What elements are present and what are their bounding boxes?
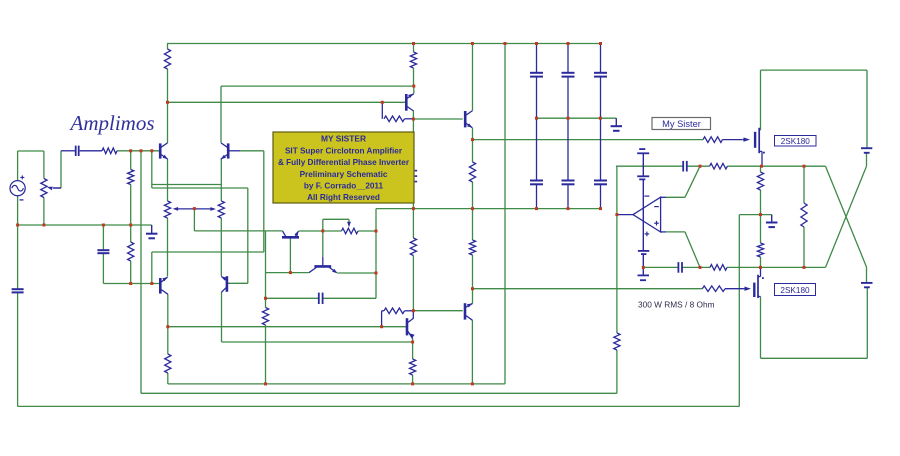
wire C3 to bottom rail — [17, 293, 19, 407]
wire bottom rail W3 y406 — [18, 405, 740, 407]
wire y342 — [222, 341, 413, 343]
wire Q2 emitter to pot — [220, 159, 222, 201]
wire ground rail y225 — [18, 224, 152, 226]
junction node at 804,166.2 — [803, 165, 806, 168]
svg-text:My Sister: My Sister — [662, 119, 701, 129]
wire cap bank column 3 mid — [600, 77, 602, 181]
wire input cap to resistor segment — [80, 150, 102, 152]
capacitor C3 bottom-left — [12, 288, 24, 290]
wire op-amp bias line — [642, 179, 644, 251]
wire y273 left segment — [266, 272, 309, 274]
potentiometer P1 input level — [41, 179, 47, 198]
junction node at 376,231 — [375, 230, 378, 233]
battery B3 circlotron top — [861, 147, 872, 149]
junction node at 265.5,298.3 — [264, 297, 267, 300]
junction node at 600.4,118.2 — [599, 117, 602, 120]
wire Q1 emitter to pot — [167, 159, 169, 201]
resistor R4b input divider lower — [128, 242, 134, 261]
junction node at 130.7,225 — [129, 224, 132, 227]
wire TrA center drop — [289, 239, 291, 273]
junction node at 322.8,230.9 — [321, 229, 324, 232]
svg-text:Preliminary Schematic: Preliminary Schematic — [300, 170, 388, 179]
resistor R15 x472 lower — [469, 240, 475, 255]
wire Q7 collector to base-res node — [412, 111, 414, 120]
junction node at 382.3,102.3 — [381, 101, 384, 104]
wire output rect left — [760, 70, 762, 130]
resistor R12 Q3 emitter — [165, 354, 171, 373]
battery B1 op-amp top bias — [639, 148, 645, 150]
resistor R3 Q7 base-emitter — [381, 102, 383, 119]
junction node at 103.4,225 — [102, 224, 105, 227]
wire x804 node to R20 — [803, 166, 805, 203]
wire long column x141 — [140, 151, 142, 393]
junction node at 167.8,326.7 — [166, 325, 169, 328]
wire column x248 — [247, 188, 249, 283]
wire wiper drop x194 — [193, 209, 195, 231]
wire x760 node to R19 — [760, 166, 762, 172]
junction node at 804,267.4 — [803, 266, 806, 269]
wire input source to cap segment — [61, 150, 76, 152]
wire Q5 base feed y327 — [168, 326, 406, 328]
wire FET gate feed bottom y289 — [473, 288, 703, 290]
junction node at 536.5,208.6 — [535, 207, 538, 210]
wire AC source bottom — [17, 196, 19, 289]
wire Q4 collector column — [221, 292, 223, 342]
wire H lower y188 — [152, 187, 248, 189]
wire y267 resistor to corner — [727, 266, 826, 268]
transistor TrB rotated — [314, 265, 331, 268]
wire Q1Q3 pot to Q3 emitter — [167, 218, 169, 277]
potentiometer P2 left half — [164, 201, 170, 218]
battery B4 circlotron bottom — [861, 282, 873, 284]
wire battery1 to diag node — [866, 153, 868, 166]
wire column x413 below resistor — [412, 256, 414, 311]
wire cap bank column 1 low — [536, 184, 538, 208]
resistor R23 gate bottom — [702, 286, 725, 292]
wire Q6 collector column — [471, 320, 473, 384]
transistor Q2 — [227, 143, 230, 158]
wire bottom rail W1 y384 — [168, 383, 505, 385]
transistor Q4 — [226, 276, 229, 292]
wire bottom rail W2 y393 — [141, 392, 617, 394]
transistor Q6 — [464, 303, 467, 319]
junction node at 17.6,225 — [16, 224, 19, 227]
junction node at 600.5,208.6 — [599, 207, 602, 210]
potentiometer P3 phase trim — [342, 228, 359, 234]
label 2SK180 top — [775, 136, 817, 147]
resistor R24 x616 — [614, 333, 620, 350]
ground G2 input rail — [151, 225, 153, 234]
wire Q5 emitter stub — [412, 339, 414, 343]
transistor TrA rotated — [282, 236, 299, 239]
wire column x739 — [738, 215, 740, 407]
junction node at 413.8,86.1 — [412, 85, 415, 88]
wire y166 cap to resistor — [687, 165, 710, 167]
capacitor bank top C5 — [530, 72, 543, 74]
capacitor bank bottom C10 — [594, 180, 607, 182]
wire left resistor column to node — [167, 69, 169, 102]
transistor Q7 — [405, 94, 408, 111]
capacitor C12 y267 coupling — [677, 262, 679, 273]
wire column x376 — [375, 209, 377, 299]
capacitor bank bottom C8 — [530, 180, 543, 182]
junction node at 616.9,214.6 — [615, 213, 618, 216]
junction node at 43.9,225 — [42, 224, 45, 227]
op-amp U1 — [633, 197, 661, 232]
wire battery2 to source rail — [866, 287, 868, 358]
wire cross diagonal bottom-to-top — [826, 166, 867, 267]
wire cap bank column 2 low — [567, 184, 569, 208]
wire y215 right section — [739, 214, 771, 216]
title box edge ticks — [415, 170, 418, 172]
wire column x616 below resistor — [616, 350, 618, 393]
wire x760 node215 to R21 — [760, 215, 762, 243]
wire cap bank column 2 mid — [567, 77, 569, 181]
junction node at 568,208.6 — [567, 207, 570, 210]
wire left resistor column upper — [167, 44, 169, 50]
wire horizontal y86 — [221, 85, 414, 87]
junction node at 568,118.2 — [567, 117, 570, 120]
wire input line to Q1 base — [117, 150, 160, 152]
wire R4-R9 column mid — [130, 185, 132, 243]
wire FET gate feed top y140 — [473, 139, 704, 141]
junction node at 194.4,208.6 — [193, 207, 196, 210]
transistor Q1 — [159, 143, 162, 158]
resistor R22 y267 — [710, 265, 727, 271]
wire Q8 base feed — [413, 118, 462, 120]
wire cap feedback y298 left — [266, 297, 319, 299]
wire op rail bottom y267 — [643, 266, 678, 268]
wire Q2Q4 pot to Q4 emitter — [220, 218, 222, 276]
resistor R11 x265 — [262, 308, 268, 326]
wire Q3 base feed y283 — [103, 283, 159, 285]
wire column x265 below resistor — [265, 325, 267, 384]
resistor R20 x804 — [801, 203, 807, 227]
wire y231 TrA emitter to pot resistor — [298, 230, 341, 232]
junction node at 413.4,119 — [412, 118, 415, 121]
svg-text:300 W RMS / 8 Ohm: 300 W RMS / 8 Ohm — [638, 300, 715, 310]
wire y166 resistor to corner — [727, 165, 825, 167]
wire cap column x103 lower — [102, 253, 104, 283]
label 2SK180 bottom — [775, 284, 816, 296]
junction node at 151.8,283.5 — [150, 282, 153, 285]
wire x760 R19 to node215 — [760, 190, 762, 215]
wire R2 column upper stub — [413, 44, 415, 53]
junction node at 151.8,150.8 — [150, 149, 153, 152]
wire cap bank column 1 — [536, 44, 538, 73]
junction node at 760.5,214.6 — [759, 213, 762, 216]
wire pot wiper stub x349 — [348, 219, 350, 225]
wire Q8 collector column from rail — [472, 44, 474, 111]
wire FET2 source column — [760, 297, 762, 359]
wire top supply rail — [167, 43, 601, 45]
wire op-amp input stub — [616, 214, 633, 216]
wire R2 column to node86 — [413, 68, 415, 86]
resistor R16 x413 — [410, 238, 416, 256]
potentiometer P2 right half — [218, 201, 224, 218]
wire y252 — [152, 251, 264, 253]
capacitor bank top C6 — [562, 72, 575, 74]
wire column x265 from y231 — [265, 231, 267, 308]
svg-text:All Right Reserved: All Right Reserved — [307, 193, 380, 202]
svg-text:2SK180: 2SK180 — [781, 137, 811, 146]
wire cap bank column 1 mid — [536, 77, 538, 181]
junction node at 760.5,267.4 — [759, 266, 762, 269]
wire column x505 — [504, 44, 506, 384]
wire y231 resistor to x376 — [358, 230, 376, 232]
wire AC top horizontal — [18, 150, 44, 152]
wire column x616 — [616, 166, 618, 333]
resistor R17 gate top — [703, 137, 723, 143]
wire cap bank column 3 low — [600, 184, 602, 208]
label My Sister box — [652, 118, 711, 130]
capacitor C2 x103 — [97, 249, 109, 251]
junction node at 472.5,43.5 — [471, 42, 474, 45]
wire x167 to R12 — [167, 327, 169, 354]
junction node at 130.7,283.5 — [129, 282, 132, 285]
svg-text:by F. Corrado__2011: by F. Corrado__2011 — [304, 182, 384, 191]
junction node at 472.5,288.7 — [471, 287, 474, 290]
resistor R4 input divider upper — [128, 170, 134, 185]
wire pot output y231 left — [194, 230, 282, 232]
svg-text:& Fully Differential Phase Inv: & Fully Differential Phase Inverter — [278, 158, 410, 167]
junction node at 265.5,383.9 — [264, 382, 267, 385]
wire Q3 collector column — [167, 294, 169, 327]
junction node at 290.4,272.6 — [289, 271, 292, 274]
wire Q2 base horizontal — [240, 150, 264, 152]
resistor R14 Q8 emitter — [469, 162, 475, 182]
ground G3 right section — [771, 215, 773, 223]
transistor Q8 — [464, 111, 467, 127]
resistor R18 y166 — [710, 163, 728, 169]
capacitor C1 input coupling — [75, 146, 77, 156]
capacitor bank top C7 — [594, 72, 607, 74]
wire op-amp out bottom — [666, 231, 685, 233]
wire Q7 emitter stub — [413, 86, 415, 93]
FET J1 2SK180 top — [754, 132, 756, 148]
junction node at 413.4,208.6 — [412, 207, 415, 210]
junction node at 505,43.5 — [504, 42, 507, 45]
junction node at 167.5,102.3 — [166, 101, 169, 104]
wire cap column x103 upper — [102, 225, 104, 250]
wire FET2 source rail y358 — [761, 357, 868, 359]
transistor Q3 — [159, 278, 162, 294]
junction node at 472.5,139.6 — [471, 138, 474, 141]
wire x472 lower — [472, 255, 474, 289]
wire R9 column lower — [130, 261, 132, 284]
junction node at 412.6,342 — [411, 341, 414, 344]
resistor R13 Q5 emitter — [410, 359, 416, 375]
resistor R25 input series — [102, 148, 117, 154]
wire cap bank column 3 — [600, 44, 602, 73]
wire R13 to W1 — [412, 375, 414, 384]
wire wiper1 column x61 — [60, 151, 62, 188]
resistor R5b Q5 base loop — [381, 311, 383, 327]
junction node at 472.5,208.6 — [471, 207, 474, 210]
wire R12 to W1 — [167, 373, 169, 384]
wire Q4 base stub — [229, 282, 248, 284]
wire AC source top — [17, 151, 19, 181]
wire FET1 source column — [761, 151, 763, 166]
wire FET2 drain column — [760, 267, 762, 276]
wire Q2 base column x264 — [263, 151, 265, 252]
wire column x152 lower — [151, 252, 153, 284]
wire y267 cap to resistor — [682, 266, 710, 268]
svg-text:MY SISTER: MY SISTER — [321, 134, 366, 144]
wire y273 right segment — [337, 272, 376, 274]
junction node at 376,273 — [375, 272, 378, 275]
svg-text:SIT Super Circlotron Amplifier: SIT Super Circlotron Amplifier — [285, 147, 403, 156]
title box — [273, 132, 414, 203]
wire column x413 along title box — [412, 119, 414, 238]
battery B2 op-amp bottom bias — [638, 250, 649, 252]
svg-text:Amplimos: Amplimos — [69, 111, 155, 135]
junction node at 700,166.2 — [699, 165, 702, 168]
wire pot1 top stub — [43, 151, 45, 179]
wire x412 to R13 — [412, 342, 414, 359]
capacitor C11 y166 coupling — [682, 161, 684, 172]
wire H upper y184 — [152, 184, 222, 186]
junction node at 413.5,43.5 — [412, 42, 415, 45]
wire output rect top — [761, 69, 868, 71]
ground G1 cap bank — [615, 118, 617, 126]
wire Q1 collector column — [167, 102, 169, 143]
svg-text:2SK180: 2SK180 — [780, 286, 810, 295]
wire Q6 emitter column — [472, 289, 474, 304]
junction node at 643.3,267.4 — [642, 266, 645, 269]
wire TrB base column — [322, 219, 324, 257]
potentiometer P2 wiper link — [175, 208, 215, 210]
wire op-amp out top — [666, 196, 685, 198]
junction node at 472.4,383.9 — [471, 382, 474, 385]
wire pot1 bottom stub — [43, 198, 45, 226]
wire cross diagonal top-to-bottom — [826, 166, 867, 267]
wire wiper1 horizontal — [54, 187, 62, 189]
wire column x152 upper — [151, 151, 153, 188]
wire TrB base branch y219 — [323, 218, 349, 220]
wire cap bank column 2 — [567, 44, 569, 73]
junction node at 130.7,150.8 — [129, 149, 132, 152]
capacitor C4 feedback y298 — [318, 293, 320, 304]
resistor R2 top-mid — [410, 52, 416, 68]
wire output rect right upper — [866, 70, 868, 148]
junction node at 700,267.4 — [699, 266, 702, 269]
wire battery2 to diag node — [866, 267, 868, 283]
junction node at 412.6,383.9 — [411, 382, 414, 385]
junction node at 761.5,166.2 — [760, 165, 763, 168]
wire op rail top y166 — [616, 165, 683, 167]
junction node at 536.5,43.5 — [535, 42, 538, 45]
wire x760 R21 to node267 — [760, 257, 762, 267]
wire Q8 emitter column — [472, 128, 474, 162]
resistor R19 x760 upper — [757, 172, 763, 190]
wire diag to y267 — [685, 232, 700, 268]
FET J2 2SK180 bottom — [753, 283, 755, 297]
wire ground feed y118 — [537, 117, 617, 119]
wire R4 column stub — [130, 151, 132, 170]
junction node at 568,43.5 — [567, 42, 570, 45]
junction node at 536.5,118.2 — [535, 117, 538, 120]
wire cap feedback y298 right — [323, 297, 376, 299]
wire diag to y166 — [685, 166, 700, 197]
resistor R1 top-left — [164, 49, 170, 69]
wire x804 R20 to node267 — [803, 227, 805, 267]
AC source V1 — [10, 181, 25, 196]
wire horizontal node to Q7 base — [168, 101, 406, 103]
junction node at 141,150.8 — [140, 149, 143, 152]
junction node at 381.6,326.7 — [380, 325, 383, 328]
capacitor bank bottom C9 — [562, 180, 575, 182]
junction node at 600.5,43.5 — [599, 42, 602, 45]
wire x472 between resistors — [472, 182, 474, 240]
wire Q2 collector to upper node — [220, 86, 222, 143]
transistor Q5 — [406, 318, 409, 335]
wire mid distribution y208 — [376, 208, 601, 210]
resistor R21 x760 lower — [757, 243, 763, 257]
wire Q6 base feed y311 — [413, 310, 462, 312]
junction node at 413.4,310.7 — [412, 309, 415, 312]
